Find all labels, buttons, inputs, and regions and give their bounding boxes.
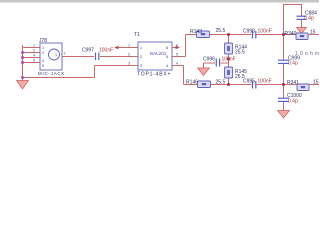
svg-text:R143: R143	[190, 29, 202, 35]
svg-text:1: 1	[33, 44, 35, 48]
svg-text:1: 1	[140, 46, 142, 50]
svg-text:5: 5	[166, 55, 168, 59]
svg-text:25.5: 25.5	[216, 80, 226, 86]
svg-text:T1: T1	[134, 32, 140, 38]
svg-text:3: 3	[128, 62, 130, 66]
svg-text:R146: R146	[186, 80, 198, 86]
svg-text:100nF: 100nF	[99, 48, 113, 54]
svg-text:C995: C995	[243, 79, 255, 85]
svg-text:4: 4	[176, 62, 178, 66]
svg-text:100nF: 100nF	[258, 79, 272, 85]
svg-text:BAL201: BAL201	[150, 51, 167, 56]
svg-text:6: 6	[176, 44, 178, 48]
svg-text:0.4p: 0.4p	[288, 61, 298, 67]
svg-text:2: 2	[140, 55, 142, 59]
svg-text:5: 5	[42, 64, 44, 68]
svg-text:J78: J78	[39, 38, 47, 44]
svg-text:R341: R341	[287, 80, 299, 86]
svg-text:100nF: 100nF	[258, 29, 272, 35]
svg-text:2: 2	[42, 51, 44, 55]
svg-text:C996: C996	[203, 57, 215, 63]
svg-text:C997: C997	[82, 48, 94, 54]
svg-text:1: 1	[128, 44, 130, 48]
svg-text:2: 2	[33, 49, 35, 53]
svg-text:6: 6	[166, 46, 168, 50]
svg-text:4: 4	[33, 54, 35, 58]
svg-text:R340: R340	[285, 31, 297, 37]
svg-text:10ohm: 10ohm	[295, 51, 319, 57]
svg-text:4: 4	[42, 59, 44, 63]
svg-text:MIC-JACK: MIC-JACK	[38, 71, 65, 76]
svg-text:TOP1-4BX+: TOP1-4BX+	[137, 72, 171, 78]
svg-text:100nF: 100nF	[222, 57, 236, 63]
svg-text:5: 5	[33, 59, 35, 63]
svg-text:4: 4	[166, 64, 168, 68]
svg-text:15: 15	[313, 80, 319, 86]
svg-text:0.4p: 0.4p	[288, 99, 298, 105]
svg-text:1: 1	[55, 53, 57, 57]
svg-text:25.5: 25.5	[216, 28, 226, 34]
svg-text:2: 2	[128, 53, 130, 57]
svg-text:25.5: 25.5	[235, 50, 245, 56]
svg-text:15: 15	[310, 30, 316, 36]
svg-text:5: 5	[176, 53, 178, 57]
svg-text:3: 3	[140, 64, 142, 68]
svg-text:1: 1	[42, 46, 44, 50]
svg-text:2: 2	[64, 52, 66, 56]
svg-text:0.4p: 0.4p	[304, 16, 314, 22]
svg-text:C998: C998	[243, 29, 255, 35]
